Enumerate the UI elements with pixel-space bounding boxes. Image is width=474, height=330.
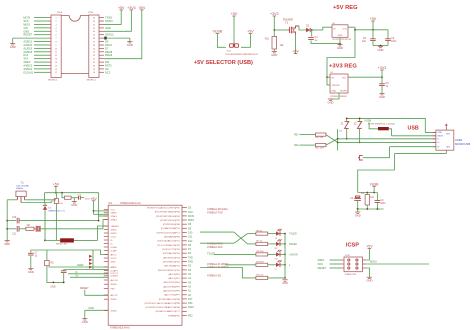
wire Z1 top: [346, 118, 348, 121]
wire C11 to R2: [19, 228, 26, 230]
JP1 left pin 3 wire: [49, 23, 52, 25]
junction: [311, 29, 313, 31]
JP1 right pin 21 wire: [99, 61, 104, 63]
svg-text:18: 18: [93, 72, 95, 74]
solder jumper SJ1: [227, 42, 239, 52]
svg-text:+5V: +5V: [292, 50, 299, 54]
svg-text:Y1: Y1: [21, 181, 25, 185]
supply +5V ICSP: [366, 245, 373, 249]
svg-text:A0/D18: A0/D18: [23, 50, 32, 54]
junction: [339, 43, 341, 45]
svg-text:7: 7: [55, 38, 56, 40]
wire R2 to Q1: [34, 228, 36, 230]
svg-text:VIN: VIN: [139, 6, 145, 10]
LED LED1: [276, 229, 282, 236]
svg-text:RX/D0: RX/D0: [105, 19, 113, 23]
svg-text:100n: 100n: [391, 40, 397, 43]
wire LED to rail: [281, 243, 286, 245]
wire label tick: [373, 186, 375, 192]
svg-text:GND: GND: [331, 91, 336, 93]
svg-text:(INT1/SDA)PD1: (INT1/SDA)PD1: [164, 265, 180, 268]
svg-text:UGND1: UGND1: [111, 276, 119, 278]
svg-text:(#HWB)PE2: (#HWB)PE2: [168, 315, 181, 317]
svg-text:XTAL2: XTAL2: [111, 218, 118, 221]
wire +5V down: [55, 186, 57, 192]
wire into REG1 IN: [323, 27, 332, 30]
svg-text:ICSP: ICSP: [345, 255, 351, 257]
svg-text:SH2: SH2: [446, 147, 450, 149]
IC U1 ATMEGA32U4 main MCU: [108, 205, 182, 325]
svg-text:GND: GND: [378, 48, 384, 52]
capacitor C3: [375, 201, 381, 203]
svg-text:D12: D12: [188, 240, 193, 243]
svg-text:VCC: VCC: [111, 210, 116, 212]
svg-text:AREF: AREF: [111, 266, 117, 269]
JP1 right pin 33 wire: [99, 20, 104, 22]
resistor R1 1M: [365, 195, 369, 206]
svg-text:GND: GND: [50, 287, 55, 289]
svg-text:+5V: +5V: [370, 17, 377, 21]
svg-text:ATMEGA-SS: ATMEGA-SS: [207, 274, 221, 277]
svg-text:10u: 10u: [362, 40, 367, 43]
svg-text:MICRO-1: MICRO-1: [48, 79, 58, 81]
wire to MCU UCAP: [93, 269, 108, 271]
svg-text:JP1A: JP1A: [57, 11, 63, 14]
JP1 right pin 28 wire: [99, 37, 104, 39]
svg-text:NCP1117ST50T3G: NCP1117ST50T3G: [333, 39, 352, 41]
svg-text:(ICP1/ADC8)PD4: (ICP1/ADC8)PD4: [163, 252, 181, 255]
svg-text:GND: GND: [379, 95, 385, 99]
svg-text:UVCC: UVCC: [111, 258, 118, 260]
svg-text:F1 MF-MSMF050-2 500mA: F1 MF-MSMF050-2 500mA: [368, 122, 395, 125]
wire VUSB to SJ1: [217, 34, 225, 48]
resistor R9: [256, 263, 268, 266]
svg-text:34: 34: [93, 18, 95, 20]
junction: [366, 192, 368, 194]
wire UGND: [68, 273, 108, 275]
wire UCAP row: [64, 269, 93, 271]
JP1 left pin 1 wire: [49, 17, 52, 19]
svg-text:D9/A9: D9/A9: [105, 53, 113, 57]
svg-text:VBUS: VBUS: [111, 213, 117, 215]
ground under REG1: [337, 45, 343, 50]
ground under RC: [355, 212, 361, 217]
svg-text:GND: GND: [127, 43, 133, 47]
wire +5V out rail: [355, 29, 388, 31]
wire net RESET: [34, 34, 49, 36]
svg-text:AREF: AREF: [23, 60, 30, 64]
connector JP1 (module pin header, DIP outline): [51, 15, 61, 77]
resistor R8: [256, 253, 268, 256]
svg-text:11: 11: [55, 52, 57, 54]
ground at JP1 right: [127, 42, 133, 47]
ground under ICSP: [366, 277, 372, 282]
wire net A2/D20: [34, 44, 49, 46]
wire +5V to ICSP pin2: [366, 249, 369, 261]
svg-text:(OC4A/#OC4A/FCO)PC7: (OC4A/#OC4A/FCO)PC7: [155, 310, 180, 313]
svg-text:GND: GND: [10, 45, 16, 49]
svg-text:RESET: RESET: [318, 266, 327, 270]
svg-text:(INT2/RXD1)PD2: (INT2/RXD1)PD2: [163, 261, 181, 263]
transistor T1 FDN340P (P-MOSFET): [283, 20, 299, 34]
svg-text:JP1B: JP1B: [88, 12, 94, 14]
wire C9 to gnd: [381, 86, 383, 94]
voltage regulator U5 NCP1117ST50T3G: [332, 23, 352, 41]
wire crossover out A: [248, 233, 256, 235]
JP1 right pin 23 wire: [99, 54, 104, 56]
fuse F1 MF-MSMF050-2: [378, 127, 389, 130]
svg-text:OUT: OUT: [342, 77, 347, 79]
LED LED2: [276, 239, 282, 246]
svg-text:MISO: MISO: [188, 219, 194, 222]
svg-text:32: 32: [93, 24, 95, 26]
svg-text:D7: D7: [105, 46, 109, 50]
svg-text:(ADC0)PF0: (ADC0)PF0: [168, 273, 180, 276]
wire bus down to XTAL row: [98, 193, 100, 221]
svg-text:+5V: +5V: [366, 245, 373, 249]
connector bottom shield pin: [445, 150, 447, 153]
svg-text:A3/D21: A3/D21: [23, 40, 32, 44]
voltage regulator U2 LP2985-33DBVR: [330, 72, 348, 98]
svg-text:GND: GND: [437, 132, 442, 134]
svg-text:30: 30: [93, 31, 95, 33]
svg-text:GND0: GND0: [111, 284, 118, 286]
JP1 left pin 4 wire: [49, 27, 52, 29]
svg-text:+5V: +5V: [247, 30, 254, 34]
svg-text:D12/A11: D12/A11: [23, 70, 33, 74]
wire net MISO: [34, 23, 49, 25]
JP1 left pin 13 wire: [49, 58, 52, 60]
svg-text:16: 16: [55, 69, 57, 71]
svg-text:25: 25: [93, 48, 95, 50]
svg-text:+5V REG: +5V REG: [333, 5, 358, 11]
svg-text:VUSB: VUSB: [370, 183, 379, 187]
supply +5V: [118, 6, 125, 10]
wire to C6: [387, 30, 389, 39]
wire ID down: [363, 147, 390, 158]
JP1 right pin 30 wire: [99, 30, 104, 32]
svg-text:GND6: GND6: [111, 310, 118, 312]
JP1 left pin 5 wire: [49, 30, 52, 32]
wire RESET to MCU: [98, 226, 109, 240]
wire U2 GND: [331, 93, 340, 99]
svg-text:20: 20: [93, 65, 95, 67]
resistor RD- 22R: [316, 133, 326, 136]
junction: [63, 282, 65, 284]
diode D1 MBR0520: [43, 205, 47, 210]
svg-text:(PCINT5/OC1A/#OC4B/ADC12)PB5: (PCINT5/OC1A/#OC4B/ADC12)PB5: [144, 302, 180, 305]
ground at JP1 left: [10, 44, 16, 49]
svg-text:28: 28: [93, 38, 95, 40]
svg-text:+5V/ON: +5V/ON: [289, 253, 298, 256]
svg-text:AVCC2: AVCC2: [111, 294, 119, 297]
svg-text:AVCC: AVCC: [111, 253, 117, 256]
wire L row: [225, 264, 256, 266]
capacitor C12 100n: [79, 196, 81, 200]
svg-text:XTAL1: XTAL1: [111, 215, 118, 218]
wire R5 top: [46, 250, 48, 261]
svg-text:VCC1: VCC1: [111, 236, 118, 238]
net arrows (off-page, group 2): [89, 255, 93, 258]
svg-text:TXLED: TXLED: [289, 233, 297, 236]
svg-text:OUT: OUT: [342, 28, 347, 30]
ground near C12: [71, 202, 77, 207]
svg-text:1M: 1M: [370, 197, 373, 199]
svg-text:27: 27: [93, 41, 95, 43]
svg-text:D10: D10: [188, 232, 193, 235]
svg-text:TX/D1: TX/D1: [105, 16, 113, 20]
JP1 left pin 8 wire: [49, 41, 52, 43]
wire gnd rail under REG1: [311, 43, 340, 45]
svg-text:13: 13: [55, 59, 57, 61]
svg-text:+3V3: +3V3: [270, 12, 279, 16]
svg-text:NC: NC: [105, 67, 109, 71]
crystal Q1: [36, 226, 40, 232]
svg-text:RESET-EN: RESET-EN: [56, 244, 67, 246]
wire fuse to VBUS pin: [389, 129, 392, 136]
wire Y1 gnd pin: [21, 202, 52, 204]
svg-text:2: 2: [55, 21, 56, 23]
junction: [346, 118, 348, 120]
wire to U2 ON/OFF: [327, 77, 330, 85]
wire REG1 OUT: [348, 27, 355, 30]
wire Z2 bottom to D+: [359, 129, 361, 143]
svg-text:GND: GND: [337, 46, 343, 50]
junction: [61, 192, 63, 194]
junction: [380, 45, 382, 47]
wire rail to gnd: [6, 240, 8, 241]
supply +5V above SJ1: [231, 12, 238, 16]
wire ICSP pin6 to gnd: [366, 268, 369, 277]
svg-text:(XCK1/#CTS)PD5: (XCK1/#CTS)PD5: [162, 249, 180, 251]
wire net A5/D23: [34, 68, 49, 70]
wire R3 top: [55, 193, 57, 199]
svg-text:VUSB: VUSB: [213, 30, 223, 34]
ground bottom left: [82, 319, 88, 324]
wire resistor to LED: [268, 233, 276, 235]
svg-text:NC/FB: NC/FB: [340, 91, 347, 93]
wire to crossover A: [200, 231, 234, 233]
svg-text:33: 33: [93, 21, 95, 23]
wire: [44, 203, 47, 205]
junction: [6, 220, 8, 222]
resistor RD+ 22R: [316, 144, 326, 147]
svg-text:UCAP: UCAP: [111, 249, 118, 252]
JP1 left pin 15 wire: [49, 65, 52, 67]
JP1 left pin 17 wire: [49, 71, 52, 73]
JP1 right pin 19 wire: [99, 68, 104, 70]
svg-text:+3V3: +3V3: [378, 66, 387, 70]
svg-text:24: 24: [93, 52, 95, 54]
wire crossover out B: [248, 243, 256, 245]
resonator Y1 CSTCE16M0V53: [16, 181, 30, 203]
svg-text:(PCINT6/OC1B/OC4B/ADC13)PB6: (PCINT6/OC1B/OC4B/ADC13)PB6: [146, 306, 181, 309]
svg-text:SH1: SH1: [446, 134, 450, 136]
wire D1 anode to RESET row: [44, 210, 46, 240]
net VUSB left of SJ1: [213, 30, 223, 34]
svg-text:+5V: +5V: [90, 197, 97, 201]
JP1 right pin 26 wire: [99, 44, 104, 46]
junction: [93, 210, 95, 212]
svg-text:+3V3: +3V3: [127, 6, 136, 10]
svg-text:100n: 100n: [381, 203, 387, 205]
net label VUSB at RC: [370, 183, 379, 187]
junction: [6, 228, 8, 230]
svg-text:USB: USB: [408, 126, 419, 132]
svg-text:3V3: 3V3: [23, 57, 28, 61]
wire XTAL2 into MCU: [103, 220, 108, 229]
ground under C5 C6: [378, 46, 384, 51]
svg-text:23: 23: [93, 55, 95, 57]
wire VBUS into connector: [392, 135, 436, 137]
svg-text:D17: D17: [188, 298, 193, 301]
wire to C5: [372, 21, 374, 39]
wire +5V feed to 3V3 reg: [327, 30, 355, 77]
svg-text:ON/OFF: ON/OFF: [331, 85, 340, 87]
wire: [12, 38, 14, 43]
capacitor C6: [385, 39, 391, 41]
wire GND to JP1 pin 7: [13, 37, 49, 39]
svg-text:MOSI: MOSI: [188, 215, 194, 218]
svg-text:IC1: IC1: [108, 202, 113, 205]
svg-text:+5V SELECTOR (USB): +5V SELECTOR (USB): [194, 60, 253, 66]
wire to C10: [7, 220, 16, 222]
junction: [284, 233, 286, 235]
wire C12 right: [80, 197, 84, 199]
wire to R10: [200, 268, 256, 278]
svg-text:A1/D19: A1/D19: [23, 46, 32, 50]
junction at U2 IN: [326, 76, 328, 78]
svg-text:(ADC4/TCK)PF4: (ADC4/TCK)PF4: [164, 281, 181, 284]
svg-text:GND: GND: [28, 270, 34, 274]
ground under C7: [28, 268, 34, 273]
svg-text:21: 21: [93, 62, 95, 64]
wire LED to rail: [281, 264, 286, 266]
wire ICSP SCK: [330, 263, 341, 265]
wire R10 to rail: [268, 277, 285, 279]
svg-text:(ADC7/TDI)PF7: (ADC7/TDI)PF7: [164, 294, 180, 297]
svg-text:(PDI/PCINT2/MOSI)PB2: (PDI/PCINT2/MOSI)PB2: [156, 216, 181, 218]
svg-text:12: 12: [55, 55, 57, 57]
svg-text:9: 9: [55, 45, 56, 47]
wire jumper to MCU bus: [74, 239, 98, 241]
wire R1 top: [366, 193, 368, 195]
junction: [357, 208, 359, 210]
JP1 left pin 2 wire: [49, 20, 52, 22]
wire net AREF: [34, 61, 49, 63]
svg-text:MICRO-2: MICRO-2: [87, 79, 97, 81]
svg-text:C10: C10: [12, 217, 17, 219]
wire C8 top: [63, 270, 65, 271]
junction: [354, 29, 356, 31]
JP1 right pin 20 wire: [99, 65, 104, 67]
svg-text:GND: GND: [105, 26, 111, 30]
wire net D12/A11: [34, 71, 49, 73]
JP1 left pin 11 wire: [49, 51, 52, 53]
svg-text:5: 5: [55, 31, 56, 33]
svg-text:GND2: GND2: [111, 233, 118, 235]
wire AVCC row: [47, 249, 93, 251]
svg-text:ATMEGA-SCK: ATMEGA-SCK: [207, 246, 223, 249]
wire to U2 IN: [327, 76, 330, 78]
svg-text:(ADC6/TDO)PF6: (ADC6/TDO)PF6: [163, 290, 180, 293]
svg-text:PINHD-2X3: PINHD-2X3: [345, 274, 357, 276]
svg-text:(PCINT4/ADC11)PB4: (PCINT4/ADC11)PB4: [159, 298, 181, 301]
LED LED3: [276, 250, 282, 257]
wire R1 bottom: [366, 205, 368, 209]
svg-text:+5V: +5V: [231, 12, 238, 16]
svg-text:+3V3 REG: +3V3 REG: [329, 64, 357, 70]
wire net SCK: [34, 20, 49, 22]
svg-text:GND: GND: [88, 307, 94, 310]
supply +3V3 above R11: [270, 12, 279, 16]
wire R3 bottom to RESET: [55, 204, 57, 241]
svg-text:MICROUSB: MICROUSB: [455, 142, 470, 146]
JP1 right pin 18 wire: [99, 71, 104, 73]
JP1 left pin 6 wire: [49, 34, 52, 36]
svg-text:GND: GND: [366, 279, 372, 283]
svg-text:MBR0520LT1 Tx: MBR0520LT1 Tx: [49, 210, 66, 212]
svg-text:UGND: UGND: [111, 247, 118, 249]
JP1 left pin 9 wire: [49, 44, 52, 46]
svg-text:D-: D-: [111, 240, 114, 242]
JP1 right pin 32 wire: [99, 23, 104, 25]
junction: [98, 220, 100, 222]
wire C3 top: [376, 193, 378, 201]
supply +3V3 at U2 out: [378, 66, 387, 70]
junction: [284, 264, 286, 266]
svg-text:RXD: RXD: [188, 261, 193, 264]
wire UCAP down: [47, 266, 64, 283]
wire to MCU XTAL1 pin: [99, 215, 109, 217]
wire RESET stub: [85, 290, 108, 296]
wire RD+ left: [300, 144, 316, 146]
resistor R5 10k UCAP: [45, 261, 50, 266]
wire +5V VCC feed: [93, 201, 95, 215]
svg-text:VBUS: VBUS: [437, 136, 443, 138]
junction: [337, 138, 339, 140]
svg-text:(T0/OC4D/ADC10)PD7: (T0/OC4D/ADC10)PD7: [157, 240, 180, 243]
ground under U2: [328, 99, 334, 104]
wire LED to rail: [281, 233, 286, 235]
wire XTAL2 net: [40, 228, 103, 230]
JP1 right pin 31 wire: [99, 27, 104, 29]
JP1 right pin 34 wire: [99, 17, 104, 19]
svg-text:MISO: MISO: [23, 22, 30, 26]
wire VUSB to fuse F1: [369, 123, 378, 129]
wire to C11: [7, 228, 16, 230]
svg-text:GND: GND: [23, 29, 29, 33]
wire to C4: [311, 30, 313, 37]
wire left rail down: [6, 200, 8, 240]
svg-text:(PCINT1/SCLK)PB1: (PCINT1/SCLK)PB1: [160, 220, 180, 222]
svg-text:17: 17: [55, 72, 57, 74]
svg-text:SCK: SCK: [188, 211, 193, 214]
svg-text:R8 330: R8 330: [257, 251, 265, 253]
capacitor C7: [28, 253, 34, 255]
junction: [284, 254, 286, 256]
wire to SJ1 right pad: [241, 34, 250, 48]
wire +5V to SJ1 center: [233, 16, 235, 42]
svg-text:AVCC0: AVCC0: [111, 279, 119, 282]
svg-text:D30: D30: [188, 302, 193, 305]
supply +3V3: [127, 6, 136, 10]
svg-text:D3/SCL: D3/SCL: [105, 33, 115, 37]
svg-text:GND: GND: [71, 203, 77, 207]
svg-text:RD+: RD+: [294, 143, 300, 147]
svg-text:R6 1k: R6 1k: [257, 230, 264, 232]
connector ICSP 2x3 header: [341, 255, 367, 276]
